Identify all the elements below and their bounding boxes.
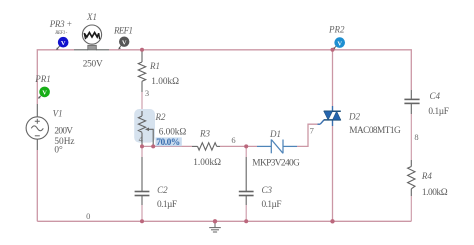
svg-text:C2: C2 [157, 185, 168, 195]
svg-text:6.00kΩ: 6.00kΩ [159, 127, 187, 137]
svg-text:R2: R2 [155, 112, 166, 122]
svg-text:V: V [337, 40, 342, 47]
svg-text:3: 3 [145, 88, 149, 98]
wire top net lamp to right corner [109, 50, 411, 90]
junction node 6 [244, 144, 248, 148]
probe PR3 [56, 37, 69, 50]
wire C2 upper stub [141, 146, 143, 157]
potentiometer R2 [138, 111, 153, 146]
svg-text:0.1µF: 0.1µF [428, 107, 449, 117]
svg-text:PR1: PR1 [34, 74, 51, 84]
junction node 4 at R2 [140, 144, 144, 148]
wire C3 upper stub [245, 146, 247, 157]
svg-text:MKP3V240G: MKP3V240G [252, 159, 300, 169]
wire net 8 between C4 and R4 [410, 114, 412, 160]
svg-text:200V: 200V [54, 126, 73, 136]
svg-text:REF1: REF1 [113, 26, 133, 36]
resistor R3 [192, 143, 220, 150]
svg-text:V1: V1 [53, 109, 63, 119]
wire triac column lower [332, 126, 334, 221]
svg-text:R4: R4 [421, 171, 432, 181]
svg-text:MAC08MT1G: MAC08MT1G [349, 126, 401, 136]
junction top triac [331, 48, 335, 52]
junction bottom C3 [244, 219, 248, 223]
svg-text:V: V [122, 40, 127, 47]
ground [209, 221, 221, 232]
svg-text:1.00kΩ: 1.00kΩ [422, 188, 448, 198]
svg-text:0.1µF: 0.1µF [157, 200, 177, 210]
svg-text:70.0%: 70.0% [156, 138, 180, 148]
svg-text:X1: X1 [86, 12, 97, 22]
capacitor C4 [404, 90, 419, 114]
junction bottom ground [213, 219, 217, 223]
wire C3 lower stub [245, 205, 247, 221]
wire C2 lower stub [141, 205, 143, 221]
svg-text:0: 0 [86, 211, 90, 221]
svg-text:PR3 +: PR3 + [49, 19, 73, 29]
svg-text:4: 4 [139, 134, 144, 144]
wire triac column upper [332, 50, 334, 106]
svg-text:C3: C3 [262, 185, 273, 195]
resistor R1 [138, 50, 145, 92]
svg-text:R1: R1 [149, 61, 160, 71]
svg-text:250V: 250V [83, 60, 103, 70]
wire net 6 from R3 to D1 and C3 [220, 145, 257, 147]
capacitor C3 [239, 157, 254, 205]
wire left net below source [36, 150, 38, 221]
junction bottom triac [330, 219, 334, 223]
potentiometer R2 highlight [134, 109, 155, 143]
wire bottom ground net [37, 220, 411, 222]
svg-text:REF1 -: REF1 - [54, 31, 67, 36]
svg-text:6: 6 [231, 135, 235, 145]
diac D1 [257, 140, 297, 154]
svg-text:7: 7 [310, 126, 314, 136]
wire top net from source to lamp [37, 50, 74, 104]
wire net 7 from D1 to triac gate [297, 124, 318, 146]
lamp X1 [74, 25, 109, 50]
wire R4 lower stub [410, 196, 412, 221]
svg-text:C4: C4 [430, 91, 441, 101]
probe PR2 [333, 37, 345, 49]
svg-text:V: V [42, 90, 47, 97]
svg-text:1.00kΩ: 1.00kΩ [193, 158, 221, 168]
junction bottom C2 [140, 219, 144, 223]
svg-text:0.1µF: 0.1µF [262, 200, 282, 210]
potentiometer R2 percent highlight [156, 137, 182, 146]
junction node 4 wiper [151, 144, 155, 148]
svg-text:PR2: PR2 [328, 25, 345, 35]
svg-text:D1: D1 [269, 129, 281, 139]
probe REF1 [118, 37, 129, 50]
capacitor C2 [135, 157, 150, 205]
triac D2 [318, 106, 341, 126]
svg-text:0°: 0° [54, 145, 63, 156]
svg-text:R3: R3 [199, 129, 210, 139]
junction top R1 [140, 48, 144, 52]
wire net 4 from R2 to R3 [142, 145, 192, 147]
probe PR1 [38, 87, 50, 99]
source V1 [26, 104, 48, 150]
resistor R4 [408, 160, 415, 196]
svg-text:D2: D2 [348, 112, 360, 122]
wire net 3 between R1 and R2 [141, 92, 143, 111]
svg-text:1.00kΩ: 1.00kΩ [151, 77, 179, 87]
svg-text:8: 8 [414, 132, 418, 142]
svg-text:V: V [61, 40, 66, 47]
